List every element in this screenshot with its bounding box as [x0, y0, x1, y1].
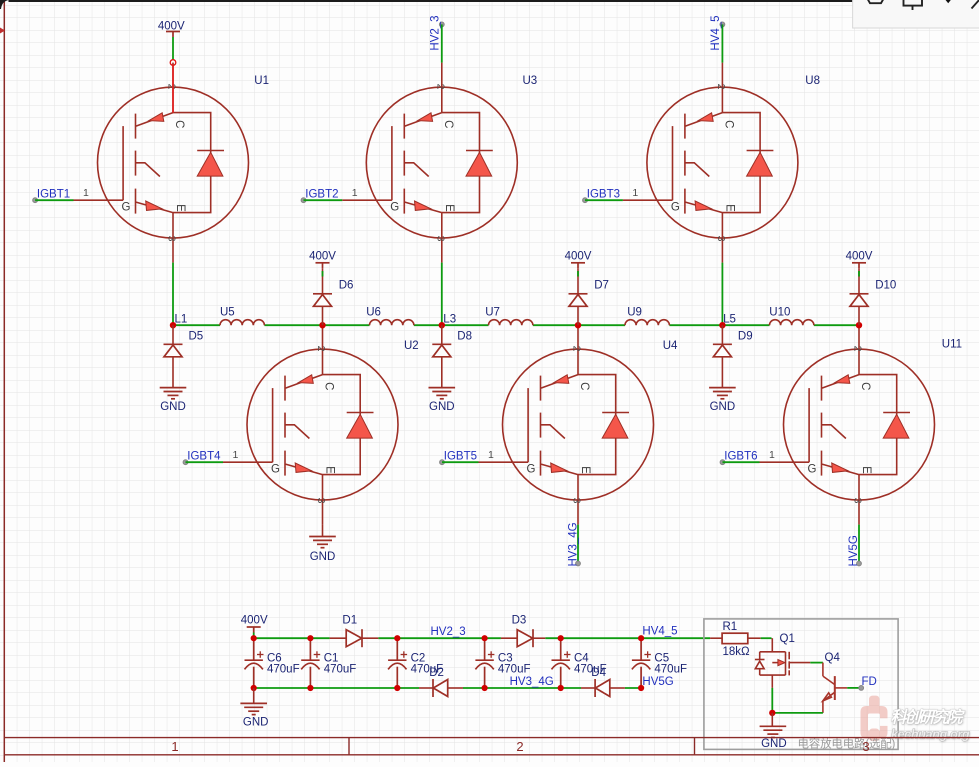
- watermark kechuang.org: [891, 727, 971, 742]
- svg-text:400V: 400V: [565, 251, 592, 263]
- svg-text:470uF: 470uF: [498, 663, 531, 675]
- capacitor C6: [245, 638, 264, 688]
- junction D10 node: [856, 322, 862, 328]
- wire Q1 source down: [771, 688, 773, 713]
- diode D8 below L3: [441, 325, 443, 344]
- diode D5 below L1: [172, 325, 174, 344]
- capacitor C2: [388, 638, 407, 688]
- svg-text:400V: 400V: [846, 251, 873, 263]
- power flag 400V above D6: [316, 263, 330, 269]
- diode D10: [858, 280, 860, 294]
- diode D3: [501, 637, 517, 639]
- red pin U1 collector: [172, 65, 174, 112]
- diode D9 below L5: [721, 325, 723, 344]
- svg-text:科创研究院: 科创研究院: [891, 708, 966, 726]
- svg-text:L3: L3: [443, 314, 456, 326]
- svg-text:电容放电电路(选配): 电容放电电路(选配): [798, 737, 896, 751]
- svg-text:D5: D5: [189, 331, 204, 343]
- ground below Q1: [771, 713, 773, 726]
- inductor U6: [370, 320, 414, 326]
- IGBT module U11: [760, 325, 935, 525]
- net port IGBT6: [720, 460, 725, 465]
- power flag 400V above D7: [571, 263, 585, 269]
- svg-text:HV3_4G: HV3_4G: [510, 676, 554, 688]
- inductor U9: [625, 320, 669, 326]
- svg-text:U7: U7: [485, 307, 500, 319]
- svg-text:470uF: 470uF: [654, 663, 687, 675]
- diode D6: [322, 280, 324, 294]
- svg-text:D10: D10: [875, 280, 896, 292]
- IGBT module U1: [74, 63, 249, 263]
- net port HV2_3: [439, 22, 444, 27]
- ground below D9: [709, 388, 736, 399]
- svg-text:D7: D7: [594, 280, 609, 292]
- svg-text:470uF: 470uF: [324, 663, 357, 675]
- inductor U5: [220, 320, 264, 326]
- cap bank top bus wires: [254, 637, 710, 639]
- svg-text:U10: U10: [769, 307, 790, 319]
- diode D7: [577, 280, 579, 294]
- svg-text:U2: U2: [404, 340, 419, 352]
- wire IGBT6: [723, 461, 760, 463]
- svg-text:400V: 400V: [241, 615, 268, 627]
- power flag 400V above U1: [166, 32, 180, 38]
- wire 400V to top cap bus: [253, 633, 255, 639]
- svg-text:IGBT5: IGBT5: [444, 451, 477, 463]
- inductor U7: [489, 320, 533, 326]
- svg-text:470uF: 470uF: [411, 663, 444, 675]
- IGBT module U3: [342, 63, 517, 263]
- junctions cap bank bottom bus: [251, 685, 645, 691]
- wire IGBT4: [186, 461, 224, 463]
- wire IGBT2: [304, 199, 343, 201]
- wire Q1 gate to Q4: [810, 662, 823, 664]
- wire 400V to D7: [577, 268, 579, 279]
- power flag 400V above D10: [852, 263, 866, 269]
- svg-text:GND: GND: [243, 717, 269, 729]
- inductor U10: [770, 320, 814, 326]
- watermark chinese text: [891, 708, 967, 727]
- ground below U2: [322, 525, 324, 537]
- wire IGBT3: [585, 199, 623, 201]
- IGBT module U8: [623, 63, 798, 263]
- svg-text:GND: GND: [710, 401, 736, 413]
- wire IGBT1: [35, 199, 73, 201]
- wire U4 emitter to port: [577, 525, 579, 563]
- wire U1 emitter down to bus: [172, 263, 174, 326]
- svg-text:U9: U9: [627, 307, 642, 319]
- left edge red marker: [0, 28, 5, 34]
- svg-text:400V: 400V: [309, 251, 336, 263]
- net port IGBT3: [583, 198, 588, 203]
- top-left black corner blob: [0, 0, 9, 9]
- wire Q4 base to FD: [847, 687, 860, 689]
- wire U3 emitter down to bus: [441, 263, 443, 326]
- toolbar icon hexagon: [867, 0, 885, 3]
- power flag 400V cap bank: [247, 627, 261, 633]
- floating toolbar panel top-right: [853, 0, 979, 28]
- junction L5: [719, 322, 725, 328]
- svg-text:GND: GND: [761, 738, 787, 750]
- svg-text:2: 2: [516, 739, 523, 754]
- net port FD: [859, 686, 864, 691]
- wire 400V to D6: [322, 268, 324, 279]
- svg-text:470uF: 470uF: [574, 663, 607, 675]
- svg-text:GND: GND: [160, 401, 186, 413]
- toolbar icon dropdown arrow: [944, 0, 953, 3]
- svg-text:Q1: Q1: [780, 633, 795, 645]
- junction D6 node: [319, 322, 325, 328]
- resistor R1: [710, 637, 722, 639]
- svg-text:HV2_3: HV2_3: [431, 626, 466, 638]
- wire IGBT5: [442, 461, 479, 463]
- svg-text:IGBT4: IGBT4: [187, 451, 221, 463]
- junction L3: [439, 322, 445, 328]
- capacitor C4: [552, 638, 571, 688]
- diode D4: [581, 687, 595, 689]
- svg-text:3: 3: [862, 739, 869, 754]
- svg-text:Q4: Q4: [825, 652, 841, 664]
- net port HV5G: [857, 561, 862, 566]
- diode D1: [330, 637, 347, 639]
- IGBT module U2: [223, 325, 398, 525]
- svg-text:400V: 400V: [158, 21, 185, 33]
- junctions cap bank top bus: [251, 635, 645, 641]
- svg-text:D8: D8: [457, 331, 472, 343]
- unconnected pin circle U1: [170, 60, 176, 66]
- wire HV2_3 to U3: [441, 24, 443, 62]
- ground below D8: [429, 388, 456, 399]
- net port IGBT2: [301, 198, 306, 203]
- diode D2: [419, 687, 433, 689]
- net port IGBT4: [183, 460, 188, 465]
- svg-text:HV4_5: HV4_5: [710, 15, 722, 50]
- net port HV3_4G: [576, 561, 581, 566]
- wire R1 to Q1: [761, 637, 772, 639]
- junction ground node: [769, 710, 775, 716]
- wire 400V to U1 pin: [172, 37, 174, 59]
- subcircuit box frame: [704, 619, 898, 750]
- net port IGBT5: [440, 460, 445, 465]
- svg-text:HV5G: HV5G: [642, 676, 673, 688]
- svg-text:U3: U3: [523, 75, 538, 87]
- sheet frame left border: [3, 0, 5, 762]
- wire U11 emitter to port: [858, 525, 860, 563]
- top chrome black line: [9, 0, 854, 2]
- wire U8 emitter down to bus: [721, 263, 723, 326]
- svg-text:U6: U6: [366, 307, 381, 319]
- svg-text:L1: L1: [175, 314, 188, 326]
- transistor Q1 mosfet: [755, 638, 810, 688]
- junction D7 node: [575, 322, 581, 328]
- IGBT module U4: [479, 325, 654, 525]
- net port IGBT1: [33, 198, 38, 203]
- ground below C6: [253, 688, 255, 703]
- svg-text:D6: D6: [339, 280, 354, 292]
- svg-text:D1: D1: [342, 615, 357, 627]
- cap bank bottom bus wires: [254, 687, 641, 689]
- svg-text:U8: U8: [805, 75, 820, 87]
- capacitor C5: [632, 638, 651, 688]
- capacitor C1: [301, 638, 320, 688]
- svg-text:HV5G: HV5G: [848, 535, 860, 566]
- svg-text:HV3_4G: HV3_4G: [568, 522, 580, 566]
- svg-text:U1: U1: [254, 75, 269, 87]
- svg-text:U4: U4: [663, 340, 678, 352]
- svg-text:1: 1: [171, 739, 178, 754]
- svg-text:IGBT3: IGBT3: [587, 189, 620, 201]
- svg-text:R1: R1: [723, 621, 738, 633]
- ground below D5: [160, 388, 187, 399]
- junction L1: [170, 322, 176, 328]
- svg-text:FD: FD: [862, 676, 877, 688]
- main bus wire segments: [173, 324, 859, 326]
- watermark logo: [861, 696, 889, 742]
- svg-text:GND: GND: [429, 401, 455, 413]
- sheet frame bottom ruler band: [4, 738, 979, 755]
- svg-text:IGBT1: IGBT1: [37, 189, 70, 201]
- svg-text:470uF: 470uF: [267, 663, 300, 675]
- wire 400V to D10: [858, 268, 860, 279]
- toolbar icon net label N: [904, 0, 923, 10]
- svg-text:GND: GND: [310, 551, 336, 563]
- transistor Q4 bjt: [823, 663, 847, 713]
- svg-text:IGBT2: IGBT2: [305, 189, 338, 201]
- svg-text:U5: U5: [220, 307, 235, 319]
- svg-text:IGBT6: IGBT6: [724, 451, 757, 463]
- svg-text:HV4_5: HV4_5: [642, 626, 677, 638]
- svg-text:HV2_3: HV2_3: [430, 15, 442, 50]
- toolbar icon diagonal: [972, 0, 979, 9]
- svg-text:18kΩ: 18kΩ: [723, 646, 751, 658]
- capacitor C3: [475, 638, 494, 688]
- svg-text:D9: D9: [738, 331, 753, 343]
- svg-text:kechuang.org: kechuang.org: [891, 727, 970, 741]
- net port HV4_5: [720, 22, 725, 27]
- wire HV4_5 to U8: [721, 24, 723, 62]
- svg-text:D3: D3: [512, 615, 527, 627]
- wire Q4 emitter to ground node: [772, 712, 823, 714]
- svg-text:U11: U11: [942, 339, 962, 351]
